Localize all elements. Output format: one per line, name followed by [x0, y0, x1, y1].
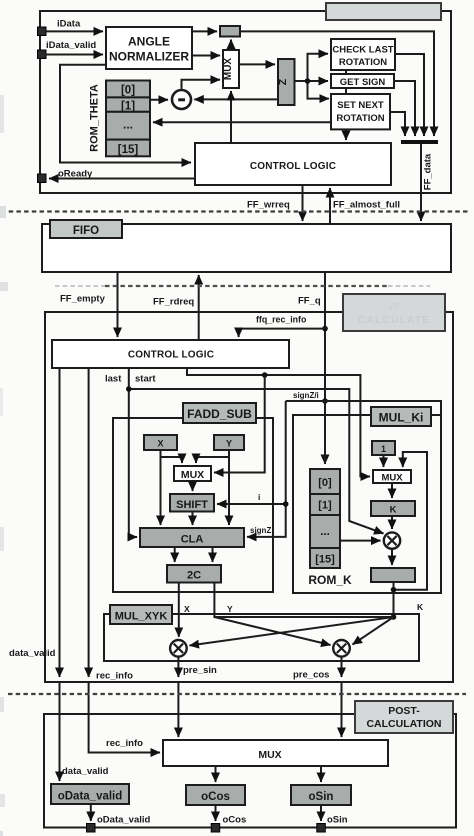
- svg-text:Z/i: Z/i: [389, 302, 398, 311]
- svg-text:FADD_SUB: FADD_SUB: [187, 407, 252, 421]
- register Z: [278, 59, 295, 105]
- svg-text:K: K: [417, 602, 424, 612]
- svg-text:pre_sin: pre_sin: [183, 665, 217, 676]
- dashed separator 2: [105, 285, 388, 287]
- register oCos: [186, 785, 245, 805]
- output port oSin: [317, 824, 326, 833]
- wire CLR to GET SIGN stub: [345, 70, 347, 74]
- svg-text:data_valid: data_valid: [9, 648, 56, 659]
- wire Z output branches: [295, 80, 329, 82]
- wire CLA to 2C left: [174, 547, 176, 562]
- label box MUL_XYK: [110, 605, 172, 624]
- svg-text:rec_info: rec_info: [96, 671, 133, 682]
- block U1 ANGLE NORMALIZER: [106, 27, 192, 69]
- box GET SIGN: [331, 74, 394, 88]
- svg-text:MUX: MUX: [381, 473, 403, 484]
- mux MUX1: [223, 50, 239, 88]
- register gray box top: [220, 26, 240, 37]
- svg-text:1: 1: [381, 444, 386, 454]
- wire 2C X output: [178, 583, 180, 637]
- svg-text:oData_valid: oData_valid: [97, 815, 151, 826]
- svg-text:MUX: MUX: [223, 58, 234, 81]
- wire last: [129, 368, 137, 537]
- svg-text:...: ...: [123, 118, 133, 132]
- wire SHIFT to CLA: [192, 512, 194, 526]
- svg-text:rec_info: rec_info: [106, 738, 143, 749]
- wire ROM to subtractor: [150, 99, 168, 101]
- output port oData_valid: [87, 824, 96, 833]
- wire CLR to bus: [395, 54, 424, 136]
- wire into ROM dots row: [153, 121, 331, 123]
- svg-text:ROM_K: ROM_K: [308, 573, 352, 587]
- svg-text:iData: iData: [57, 19, 81, 30]
- mux POST: [163, 740, 388, 766]
- ROM_THETA cells: [106, 81, 150, 157]
- svg-text:SHIFT: SHIFT: [176, 499, 208, 511]
- wire MUX up to register: [230, 40, 232, 51]
- register Ki out: [371, 568, 415, 582]
- wire iData_valid: [46, 54, 103, 56]
- wire pre_cos: [341, 657, 343, 677]
- svg-text:CHECK LAST: CHECK LAST: [332, 45, 393, 56]
- svg-text:MUX: MUX: [258, 749, 281, 761]
- svg-text:GET SIGN: GET SIGN: [340, 77, 386, 88]
- wire SNR to control logic: [345, 129, 347, 140]
- wire start: [187, 368, 370, 477]
- svg-text:oCos: oCos: [201, 791, 230, 803]
- svg-text:signZ/i: signZ/i: [293, 391, 319, 400]
- wire SNR to bus: [390, 112, 405, 136]
- wire 2C Y output: [214, 583, 393, 618]
- wire angle normalizer to control logic: [60, 65, 191, 163]
- wire into ROM_K: [324, 401, 326, 464]
- label box MUL_Ki: [371, 407, 431, 426]
- svg-text:FF_data: FF_data: [423, 153, 434, 190]
- wire Z to subtractor: [194, 98, 278, 100]
- svg-text:FF_q: FF_q: [298, 296, 321, 307]
- svg-text:CLA: CLA: [181, 534, 204, 546]
- svg-text:Y: Y: [226, 439, 232, 449]
- svg-text:ROM_THETA: ROM_THETA: [89, 84, 101, 152]
- container FADD_SUB: [113, 418, 273, 592]
- svg-text:[0]: [0]: [121, 85, 135, 97]
- wire K short diagonal to right multiplier: [353, 617, 394, 645]
- wire X to MUX: [161, 457, 183, 463]
- box SET NEXT ROTATION: [331, 94, 390, 129]
- wire MUX to oSin: [320, 766, 322, 782]
- label box calculation (blurred): [343, 294, 445, 331]
- dashed separator 3: [8, 693, 466, 695]
- control logic 2: [52, 340, 289, 368]
- wire AN to MUX: [192, 55, 220, 57]
- svg-text:ROTATION: ROTATION: [336, 113, 384, 124]
- svg-text:[0]: [0]: [318, 477, 332, 489]
- ROM_K cells: [310, 469, 340, 568]
- svg-text:SET NEXT: SET NEXT: [337, 100, 384, 111]
- svg-text:data_valid: data_valid: [62, 766, 109, 777]
- wire data_valid long: [59, 368, 61, 677]
- container MUL_Ki: [293, 415, 441, 593]
- svg-text:FF_almost_full: FF_almost_full: [333, 200, 400, 211]
- wire Y to MUX: [196, 457, 229, 463]
- wire GET SIGN to SNR stub: [345, 88, 347, 94]
- control logic 1: [195, 143, 391, 185]
- svg-text:POST-: POST-: [388, 705, 420, 717]
- wire iData: [46, 30, 103, 32]
- input port iData_valid: [38, 50, 47, 59]
- wire control logic to MUX select: [230, 91, 232, 143]
- multiplier Ki circle: [384, 532, 400, 548]
- mux Ki: [373, 470, 411, 483]
- wire MUX to Z: [239, 63, 275, 65]
- svg-text:oCos: oCos: [223, 815, 247, 826]
- svg-text:ROTATION: ROTATION: [339, 57, 387, 68]
- scan noise left margin: [0, 95, 8, 836]
- svg-text:[15]: [15]: [315, 554, 335, 566]
- svg-text:FF_rdreq: FF_rdreq: [153, 297, 194, 308]
- wire CLA to 2C right: [212, 547, 214, 562]
- register oSin: [291, 785, 351, 805]
- wire start branch to fadd mux: [214, 375, 265, 473]
- wire X to CLA: [160, 450, 162, 525]
- wire feedback to MUX: [394, 452, 428, 590]
- svg-text:MUX: MUX: [181, 469, 204, 481]
- wire MUX to K: [391, 483, 393, 498]
- wire 1 to MUX: [383, 455, 385, 467]
- mux FADD: [174, 466, 211, 481]
- wire FF_almost_full: [329, 188, 331, 224]
- wire FF_empty: [117, 272, 119, 337]
- output port oCos: [211, 824, 220, 833]
- svg-text:Z: Z: [277, 78, 289, 85]
- svg-text:i: i: [258, 492, 260, 502]
- wire reg down K: [393, 582, 395, 617]
- wire FF_q: [324, 272, 326, 464]
- node i junction: [283, 501, 289, 507]
- wire K to multiplier: [391, 516, 393, 529]
- svg-text:CONTROL LOGIC: CONTROL LOGIC: [128, 350, 214, 361]
- svg-text:K: K: [390, 505, 397, 516]
- svg-text:Y: Y: [227, 604, 233, 614]
- input port iData: [38, 27, 47, 36]
- svg-text:iData_valid: iData_valid: [46, 40, 96, 51]
- wire Y diagonal to right multiplier: [214, 617, 330, 645]
- register X: [144, 435, 177, 450]
- node signZ/i junction: [322, 398, 328, 404]
- svg-text:FF_wrreq: FF_wrreq: [247, 200, 290, 211]
- svg-text:oData_valid: oData_valid: [58, 791, 123, 803]
- container MUL_XYK: [104, 614, 419, 661]
- wire oSin out: [320, 805, 322, 821]
- svg-text:2C: 2C: [187, 570, 201, 582]
- register oData_valid: [51, 784, 129, 804]
- wire FF_data down to FIFO: [420, 144, 422, 221]
- bus bar FF_data: [401, 140, 438, 144]
- register Y: [214, 435, 244, 450]
- constant 1 box: [372, 441, 395, 455]
- node start junction: [262, 372, 268, 378]
- wire oCos out: [215, 805, 217, 821]
- wire oData_valid out: [90, 804, 92, 821]
- svg-text:CALCULATION: CALCULATION: [366, 718, 441, 730]
- wire pre_sin: [177, 657, 179, 677]
- wire multiplier to register: [391, 549, 393, 565]
- svg-text:ANGLE: ANGLE: [128, 35, 170, 49]
- FIFO box: [42, 224, 451, 272]
- svg-text:[1]: [1]: [121, 100, 135, 112]
- svg-text:oSin: oSin: [309, 791, 334, 803]
- svg-text:X: X: [157, 439, 163, 449]
- register SHIFT: [170, 494, 214, 512]
- outer box pre-calculation: [40, 11, 451, 193]
- adder CLA: [140, 528, 244, 547]
- svg-text:oReady: oReady: [58, 169, 93, 180]
- node ffq_rec_info junction: [322, 326, 328, 332]
- outer box post-calculation: [44, 714, 456, 828]
- svg-text:MUL_XYK: MUL_XYK: [115, 611, 168, 623]
- svg-text:last: last: [105, 374, 122, 385]
- label box FADD_SUB: [183, 403, 256, 423]
- wire GS to bus: [394, 81, 415, 136]
- FIFO label box: [50, 220, 122, 238]
- svg-text:signZ: signZ: [250, 526, 271, 535]
- svg-text:CONTROL LOGIC: CONTROL LOGIC: [250, 161, 336, 172]
- box CHECK LAST ROTATION: [331, 39, 395, 70]
- svg-text:oSin: oSin: [327, 815, 348, 826]
- svg-text:FF_empty: FF_empty: [60, 294, 106, 305]
- wire signZ/i: [286, 401, 441, 593]
- wire ffq_rec_info: [239, 329, 325, 337]
- svg-text:pre_cos: pre_cos: [293, 670, 329, 681]
- svg-text:...: ...: [320, 526, 330, 538]
- svg-text:[15]: [15]: [118, 144, 139, 156]
- svg-text:start: start: [135, 374, 156, 385]
- wire register to FF_data bus: [240, 31, 434, 136]
- node last junction: [126, 386, 132, 392]
- wire K diagonal to left multiplier: [190, 617, 394, 646]
- wire oReady: [49, 178, 195, 180]
- wire FF_wrreq: [302, 185, 304, 221]
- svg-text:CALCULATE: CALCULATE: [358, 314, 430, 326]
- output port oReady: [38, 174, 47, 183]
- svg-text:FIFO: FIFO: [73, 225, 99, 237]
- outer box calculation: [45, 312, 453, 682]
- svg-text:X: X: [184, 604, 190, 614]
- wire ROM_K to multiplier: [340, 540, 381, 542]
- label box PRE (blurred): [326, 3, 441, 20]
- wire Y to CLA: [228, 450, 230, 525]
- multiplier right: [333, 640, 350, 657]
- register 2C: [167, 565, 221, 583]
- wire rec_info long: [88, 368, 90, 677]
- svg-text:MUL_Ki: MUL_Ki: [379, 411, 424, 425]
- svg-text:NORMALIZER: NORMALIZER: [109, 50, 189, 64]
- wire MUX to oCos: [215, 766, 217, 782]
- node K xover: [391, 614, 397, 620]
- dashed separator 1: [1, 210, 468, 212]
- subtractor circle: [172, 90, 191, 109]
- wire i and signZ vertical: [247, 401, 286, 537]
- node Z out: [305, 78, 311, 84]
- register K: [371, 501, 415, 516]
- label box POST-CALCULATION: [355, 701, 453, 733]
- wire subtractor up to MUX: [182, 80, 221, 90]
- multiplier left: [170, 640, 187, 657]
- wire MUX to SHIFT: [192, 481, 194, 491]
- wire FF_rdreq: [198, 275, 200, 340]
- svg-text:ffq_rec_info: ffq_rec_info: [256, 315, 307, 325]
- node K feedback junction: [391, 587, 397, 593]
- wire AN to register: [192, 30, 217, 32]
- svg-text:[1]: [1]: [318, 500, 332, 512]
